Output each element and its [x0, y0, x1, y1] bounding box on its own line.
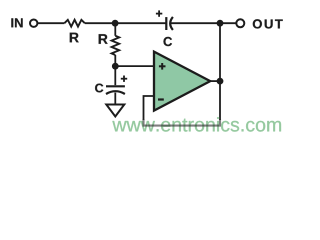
wire output net vertical [219, 23, 221, 120]
wire C1 to OUT [171, 22, 236, 24]
terminal OUT [236, 19, 244, 27]
op-amp U1 [154, 52, 210, 111]
op-amp plus input mark [159, 63, 166, 70]
polarity plus of C1 [156, 10, 162, 16]
wire junction A to R2 [114, 23, 116, 36]
wire feedback [144, 96, 155, 120]
wire R2 to node B [114, 55, 116, 66]
wire feedback bottom run (under watermark veil) [144, 119, 221, 126]
junction node B [112, 63, 119, 70]
junction op-amp output [217, 78, 224, 85]
wire R1 to C1 [85, 22, 166, 24]
label R of R2 [99, 34, 108, 44]
ground [106, 105, 124, 117]
wire IN to R1 [38, 22, 65, 24]
capacitor C2 [106, 86, 125, 94]
label C of C2 [95, 84, 103, 93]
node IN [11, 18, 22, 27]
wire node B to C2 [114, 66, 116, 85]
wire node B to op-amp plus input [115, 65, 154, 67]
resistor R1 [64, 20, 84, 27]
capacitor C1 [166, 17, 173, 30]
terminal IN [30, 20, 37, 27]
watermark [112, 117, 281, 131]
wire C2 to ground [114, 93, 116, 105]
wire op-amp output to junction [210, 80, 220, 82]
polarity plus of C2 [121, 76, 127, 82]
label C of C1 [164, 37, 173, 46]
junction node A [112, 20, 119, 27]
junction node OUT [217, 20, 224, 27]
resistor R2 [112, 36, 120, 55]
label OUT [253, 19, 283, 28]
label R of R1 [70, 33, 79, 43]
op-amp minus input mark [158, 98, 164, 100]
